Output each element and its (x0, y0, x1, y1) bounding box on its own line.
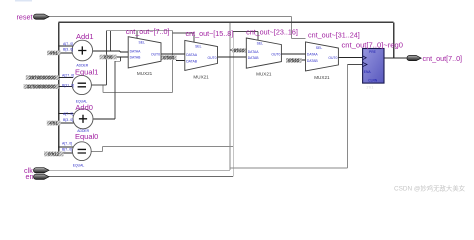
svg-text:PRE: PRE (369, 50, 377, 54)
svg-text:en: en (26, 172, 34, 181)
svg-text:OUT0: OUT0 (328, 56, 337, 60)
svg-text:OUT0: OUT0 (151, 53, 160, 57)
svg-text:Equal1: Equal1 (75, 67, 98, 76)
svg-text:MUX21: MUX21 (314, 75, 330, 80)
svg-text:DATAB: DATAB (307, 59, 319, 63)
svg-text:MUX21: MUX21 (137, 71, 153, 76)
svg-text:OUT0: OUT0 (207, 56, 216, 60)
svg-text:ENA: ENA (364, 70, 372, 74)
svg-text:B[7..0]: B[7..0] (62, 147, 72, 151)
svg-text:cnt_out~[7..0]: cnt_out~[7..0] (126, 27, 170, 36)
svg-text:8'h0: 8'h0 (104, 54, 113, 59)
svg-text:DATAB: DATAB (248, 56, 260, 60)
svg-text:8'hc0: 8'hc0 (234, 48, 245, 53)
svg-text:Add0: Add0 (75, 103, 93, 112)
svg-text:SEL: SEL (316, 46, 323, 50)
svg-text:Add1: Add1 (76, 32, 94, 41)
svg-text:DATAA: DATAA (186, 53, 198, 57)
svg-text:4'h1: 4'h1 (49, 121, 58, 126)
svg-text:A[7..0]: A[7..0] (63, 112, 73, 116)
svg-text:Equal0: Equal0 (75, 132, 98, 141)
svg-text:8'h80: 8'h80 (163, 55, 175, 60)
svg-text:DATAA: DATAA (130, 50, 142, 54)
svg-text:DATAB: DATAB (130, 56, 142, 60)
svg-text:DATAB: DATAB (186, 59, 198, 63)
svg-text:cnt_out[7..0]: cnt_out[7..0] (423, 54, 463, 63)
svg-text:CSDN @妙鸡无敌大美女: CSDN @妙鸡无敌大美女 (394, 184, 466, 193)
svg-text:32'h00000000: 32'h00000000 (27, 84, 56, 89)
svg-text:SEL: SEL (257, 41, 264, 45)
svg-text:EQUAL: EQUAL (76, 99, 88, 103)
svg-text:CLRN: CLRN (368, 79, 378, 83)
svg-text:4'h1: 4'h1 (49, 50, 58, 55)
svg-text:ADDER: ADDER (77, 129, 89, 133)
svg-text:A[7..0]: A[7..0] (63, 42, 73, 46)
svg-text:A[7..0]: A[7..0] (62, 141, 72, 145)
svg-text:8'h40: 8'h40 (288, 58, 300, 63)
svg-text:ADDER: ADDER (76, 64, 88, 68)
svg-text:cnt_out~[23..16]: cnt_out~[23..16] (246, 27, 298, 36)
svg-text:cnt_out~[31..24]: cnt_out~[31..24] (308, 31, 360, 40)
svg-text:EQUAL: EQUAL (73, 163, 85, 167)
svg-text:OUT0: OUT0 (271, 53, 280, 57)
svg-text:B[3..0]: B[3..0] (63, 47, 73, 51)
svg-text:B[3..0]: B[3..0] (63, 118, 73, 122)
svg-text:MUX21: MUX21 (256, 72, 272, 77)
svg-text:cnt_out~[15..8]: cnt_out~[15..8] (186, 29, 234, 38)
svg-text:1'h1: 1'h1 (366, 85, 374, 90)
svg-text:DATAA: DATAA (248, 50, 260, 54)
svg-text:SEL: SEL (139, 41, 146, 45)
svg-text:cnt_out[7..0]~reg0: cnt_out[7..0]~reg0 (342, 41, 403, 50)
svg-text:A[27..0]: A[27..0] (62, 73, 74, 77)
svg-text:reset: reset (17, 12, 33, 21)
svg-text:28'h0000000: 28'h0000000 (29, 75, 56, 80)
svg-text:SEL: SEL (195, 44, 202, 48)
svg-text:B[31..0]: B[31..0] (62, 83, 74, 87)
svg-text:MUX21: MUX21 (193, 75, 209, 80)
svg-text:DATAA: DATAA (307, 53, 319, 57)
svg-text:8'h12: 8'h12 (48, 151, 60, 156)
